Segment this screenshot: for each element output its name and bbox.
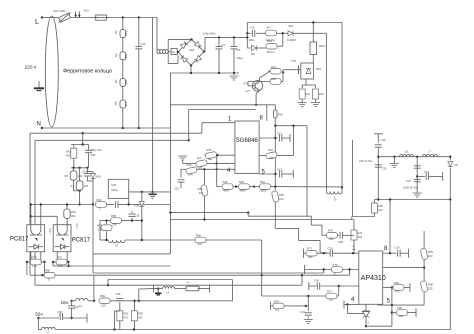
svg-text:182: 182	[329, 237, 334, 241]
svg-text:R24: R24	[268, 148, 273, 152]
svg-text:R46: R46	[207, 148, 212, 152]
svg-text:L1: L1	[46, 330, 49, 334]
svg-text:100: 100	[101, 303, 106, 307]
svg-text:C32: C32	[382, 167, 387, 171]
svg-text:180p 16v: 180p 16v	[91, 148, 103, 152]
svg-text:R55: R55	[279, 193, 284, 197]
svg-text:C13: C13	[174, 187, 179, 191]
svg-text:R4: R4	[114, 79, 118, 83]
svg-text:201: 201	[308, 255, 313, 259]
svg-text:C16: C16	[141, 42, 146, 46]
svg-text:182: 182	[275, 308, 280, 312]
svg-text:C10: C10	[250, 26, 255, 30]
svg-text:F2: F2	[172, 50, 176, 54]
svg-text:Fu3: Fu3	[84, 8, 89, 12]
svg-text:220 v: 220 v	[25, 65, 37, 71]
svg-text:L3: L3	[79, 304, 82, 308]
svg-text:R83: R83	[138, 312, 143, 316]
svg-text:C25: C25	[111, 183, 116, 187]
svg-text:R81: R81	[100, 294, 105, 298]
svg-text:L4: L4	[166, 291, 169, 295]
svg-text:L2: L2	[115, 244, 118, 248]
svg-text:R80: R80	[45, 269, 50, 273]
svg-text:C14: C14	[82, 170, 87, 174]
svg-text:FB11: FB11	[319, 44, 326, 48]
svg-text:R79: R79	[57, 255, 62, 259]
svg-text:R67: R67	[398, 306, 403, 310]
svg-text:R70: R70	[328, 229, 333, 233]
svg-text:R61: R61	[66, 150, 71, 154]
svg-text:R45: R45	[187, 163, 192, 167]
svg-text:R10: R10	[319, 92, 324, 96]
svg-text:R74: R74	[358, 231, 363, 235]
svg-text:PC817: PC817	[10, 236, 29, 242]
svg-text:100μ: 100μ	[237, 56, 243, 60]
svg-text:4: 4	[351, 297, 355, 303]
svg-text:273: 273	[32, 264, 37, 268]
svg-text:4803: 4803	[261, 189, 267, 193]
svg-text:C7: C7	[222, 43, 226, 47]
svg-text:+17v: +17v	[48, 227, 52, 234]
svg-text:473: 473	[199, 191, 204, 195]
svg-text:N: N	[37, 122, 41, 128]
svg-text:VD4: VD4	[288, 24, 294, 28]
svg-text:104: 104	[84, 184, 89, 188]
svg-text:R21: R21	[271, 65, 276, 69]
svg-text:102: 102	[269, 156, 274, 160]
svg-text:C30: C30	[314, 279, 319, 283]
svg-text:C29: C29	[328, 247, 333, 251]
svg-text:2: 2	[368, 321, 370, 325]
svg-text:SCK 1051: SCK 1051	[53, 9, 66, 13]
svg-text:R75: R75	[274, 299, 279, 303]
svg-text:C36: C36	[57, 310, 62, 314]
svg-text:R77: R77	[327, 289, 332, 293]
svg-text:R3: R3	[114, 53, 118, 57]
svg-text:1000 uF 25v: 1000 uF 25v	[403, 185, 419, 189]
svg-text:R65: R65	[196, 233, 201, 237]
svg-text:ZD: ZD	[251, 52, 255, 56]
svg-text:R18: R18	[267, 39, 272, 43]
svg-text:VD: VD	[454, 163, 458, 167]
svg-text:238: 238	[112, 223, 117, 227]
svg-text:R56: R56	[378, 204, 383, 208]
svg-text:314: 314	[124, 102, 128, 107]
svg-text:Ферритовое кольцо: Ферритовое кольцо	[63, 68, 112, 74]
svg-text:C8: C8	[237, 48, 241, 52]
svg-text:C31: C31	[300, 310, 305, 314]
svg-text:8: 8	[384, 246, 388, 252]
svg-text:R49: R49	[223, 180, 228, 184]
svg-text:PC817: PC817	[72, 237, 91, 243]
svg-text:SG6846: SG6846	[236, 138, 259, 144]
svg-text:C11: C11	[277, 132, 282, 136]
svg-text:473: 473	[395, 289, 400, 293]
svg-text:R62: R62	[97, 198, 102, 202]
svg-text:VT8: VT8	[291, 59, 296, 63]
svg-text:5: 5	[387, 299, 391, 305]
svg-text:C42: C42	[406, 179, 411, 183]
svg-text:5: 5	[262, 170, 266, 176]
svg-text:8: 8	[260, 116, 264, 122]
svg-text:184: 184	[399, 314, 404, 318]
svg-text:R59: R59	[428, 250, 433, 254]
svg-text:1N4007: 1N4007	[287, 38, 297, 42]
svg-text:R48: R48	[198, 187, 203, 191]
svg-text:R68: R68	[428, 283, 433, 287]
svg-text:+17v: +17v	[75, 222, 79, 229]
svg-text:4803: 4803	[240, 189, 246, 193]
svg-text:R2: R2	[114, 30, 118, 34]
svg-text:R64: R64	[71, 210, 76, 214]
svg-text:32v: 32v	[35, 311, 43, 317]
svg-text:R71: R71	[307, 247, 312, 251]
svg-text:R66: R66	[394, 281, 399, 285]
svg-text:VD5: VD5	[189, 48, 195, 52]
svg-text:L: L	[35, 19, 39, 26]
svg-text:R17: R17	[306, 92, 311, 96]
svg-text:243: 243	[428, 254, 433, 258]
svg-text:98 Om: 98 Om	[267, 50, 276, 54]
svg-text:L7: L7	[428, 150, 431, 154]
svg-text:VD9: VD9	[134, 204, 140, 208]
svg-text:182: 182	[208, 157, 213, 161]
svg-text:235: 235	[428, 287, 433, 291]
svg-text:004: 004	[71, 214, 76, 218]
svg-text:R50: R50	[239, 180, 244, 184]
svg-text:314: 314	[124, 31, 128, 36]
svg-text:462: 462	[66, 154, 71, 158]
svg-text:R22: R22	[271, 77, 276, 81]
svg-text:C37: C37	[74, 305, 79, 309]
svg-text:C41: C41	[424, 170, 429, 174]
svg-text:100n: 100n	[249, 38, 255, 42]
svg-text:VD6: VD6	[96, 175, 102, 179]
svg-text:C26: C26	[395, 246, 400, 250]
svg-text:100μ 400v: 100μ 400v	[203, 32, 216, 36]
svg-text:Tr5: Tr5	[332, 196, 338, 202]
svg-text:AP4310: AP4310	[361, 275, 386, 282]
svg-text:C33: C33	[91, 153, 96, 157]
svg-text:VD8: VD8	[316, 67, 322, 71]
svg-text:R51: R51	[260, 180, 265, 184]
svg-text:1: 1	[228, 117, 232, 123]
svg-text:220: 220	[279, 197, 284, 201]
svg-text:R82: R82	[124, 312, 129, 316]
svg-text:182: 182	[198, 165, 203, 169]
svg-text:C40: C40	[381, 138, 386, 142]
svg-text:470 uF 10v: 470 uF 10v	[359, 159, 373, 163]
svg-text:182: 182	[329, 298, 334, 302]
svg-text:472: 472	[124, 316, 129, 320]
svg-text:F1: F1	[187, 281, 191, 285]
svg-text:314: 314	[124, 80, 128, 85]
svg-text:R58: R58	[111, 214, 116, 218]
svg-text:R47: R47	[197, 156, 202, 160]
svg-text:4x7: 4x7	[267, 26, 272, 30]
svg-text:L6: L6	[405, 150, 408, 154]
svg-text:16v: 16v	[61, 300, 69, 306]
svg-text:159: 159	[98, 228, 103, 232]
svg-text:R20: R20	[278, 113, 283, 117]
svg-text:XaOp: XaOp	[111, 188, 118, 192]
svg-text:R73: R73	[333, 263, 338, 267]
svg-text:562: 562	[138, 316, 143, 320]
svg-text:R7: R7	[71, 184, 75, 188]
svg-text:R5: R5	[114, 101, 118, 105]
svg-text:314: 314	[124, 54, 128, 59]
svg-text:4803: 4803	[223, 189, 229, 193]
svg-text:VT3: VT3	[243, 82, 248, 86]
svg-text:104: 104	[188, 173, 193, 177]
svg-text:+V?: +V?	[245, 89, 250, 93]
svg-text:C12: C12	[277, 168, 282, 172]
svg-text:C15: C15	[135, 214, 140, 218]
svg-text:C28: C28	[338, 240, 343, 244]
svg-text:101: 101	[198, 242, 203, 246]
svg-text:104: 104	[78, 174, 83, 178]
svg-text:R8: R8	[65, 174, 69, 178]
svg-text:R78: R78	[31, 255, 36, 259]
svg-text:102: 102	[378, 208, 383, 212]
svg-text:C38: C38	[116, 292, 121, 296]
svg-text:243: 243	[358, 235, 363, 239]
